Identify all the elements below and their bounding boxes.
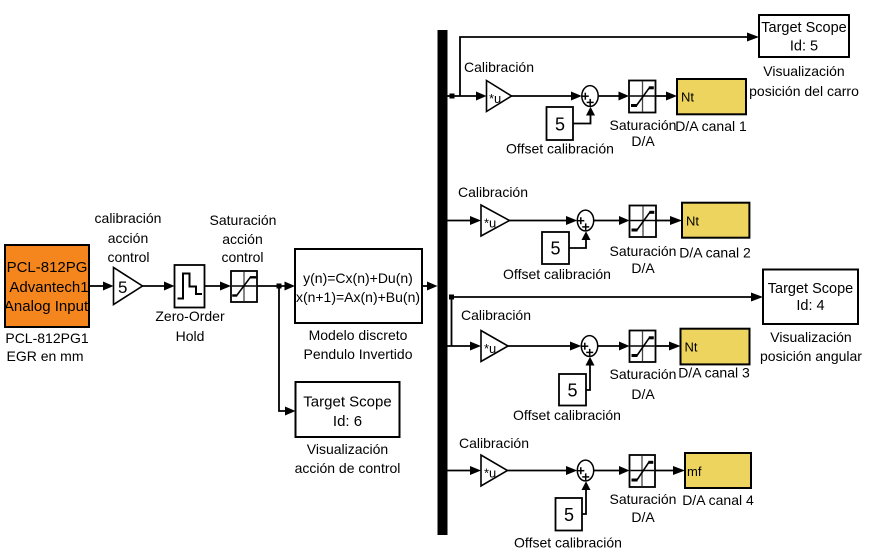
svg-text:5: 5 xyxy=(555,115,565,135)
demux bar xyxy=(438,30,448,535)
svg-text:Offset calibración: Offset calibración xyxy=(514,535,622,551)
svg-text:posición angular: posición angular xyxy=(760,348,862,364)
wire gain row2 to sum row2 xyxy=(510,216,578,225)
wire PCL-812PG1 to gain 5 xyxy=(89,282,114,291)
wire sum row4 to Saturación D/A row4 xyxy=(594,466,630,475)
svg-text:control: control xyxy=(107,249,149,265)
block D/A canal 1 (Nt) xyxy=(677,79,746,114)
svg-text:D/A canal 4: D/A canal 4 xyxy=(682,492,754,508)
svg-text:Visualización: Visualización xyxy=(763,63,844,79)
label Calibración row1 xyxy=(464,59,534,75)
svg-text:Id: 5: Id: 5 xyxy=(790,39,818,55)
label Saturación D/A row3 xyxy=(610,366,677,402)
block D/A canal 3 (Nt) xyxy=(681,329,750,365)
svg-text:Target Scope: Target Scope xyxy=(303,394,391,411)
svg-text:D/A canal 1: D/A canal 1 xyxy=(675,118,747,134)
wire gain 5 to Zero-Order Hold xyxy=(143,282,175,291)
wire Saturación D/A row4 to D/A canal 4 xyxy=(655,466,685,475)
label Modelo discreto Pendulo Invertido xyxy=(304,327,413,362)
svg-text:EGR en mm: EGR en mm xyxy=(6,348,83,364)
label Saturación acción control xyxy=(210,212,277,265)
block D/A canal 4 (mf) xyxy=(685,453,751,488)
block PCL-812PG1 (PCL-812PG Advantech1 Analog Input) xyxy=(4,245,89,327)
svg-text:Saturación: Saturación xyxy=(610,117,677,133)
svg-text:5: 5 xyxy=(564,505,574,525)
constant 5 Offset calibración row1 xyxy=(547,107,574,140)
svg-text:*u: *u xyxy=(484,466,496,481)
label Offset calibración row2 xyxy=(503,266,611,282)
block Modelo discreto (state space) xyxy=(295,249,422,323)
svg-text:Advantech1: Advantech1 xyxy=(9,279,88,296)
label D/A canal 4 xyxy=(682,492,754,508)
svg-text:x(n+1)=Ax(n)+Bu(n): x(n+1)=Ax(n)+Bu(n) xyxy=(296,289,420,305)
wire Saturación acción control to Modelo discreto xyxy=(257,282,295,291)
svg-text:control: control xyxy=(221,249,263,265)
label calibración acción control xyxy=(95,210,162,265)
wire constant 5 row2 to sum row2 xyxy=(569,231,591,248)
sum row3 xyxy=(581,336,597,357)
label Visualización posición del carro xyxy=(749,63,859,99)
label Saturación D/A row1 xyxy=(610,117,677,149)
gain Calibración row2 (*u) xyxy=(481,205,510,236)
svg-text:Nt: Nt xyxy=(685,340,698,355)
node junction saturation output xyxy=(277,284,282,289)
wire Saturación D/A row1 to D/A canal 1 xyxy=(656,92,678,101)
label Zero-Order Hold xyxy=(155,308,225,344)
label D/A canal 2 xyxy=(679,245,751,261)
svg-text:acción: acción xyxy=(222,231,262,247)
gain 5 (calibración acción control) xyxy=(114,268,143,305)
label D/A canal 1 xyxy=(675,118,747,134)
svg-text:Target Scope: Target Scope xyxy=(761,20,846,36)
svg-text:Zero-Order: Zero-Order xyxy=(155,308,225,324)
label PCL-812PG1 EGR en mm xyxy=(5,330,88,364)
wire constant 5 row1 to sum row1 xyxy=(573,107,595,124)
block Saturación D/A row2 xyxy=(630,206,657,238)
svg-text:Pendulo Invertido: Pendulo Invertido xyxy=(304,346,413,362)
svg-text:Id: 6: Id: 6 xyxy=(333,413,362,430)
wire Zero-Order Hold to Saturación acción control xyxy=(205,282,232,291)
wire constant 5 row3 to sum row3 xyxy=(586,357,595,390)
svg-text:5: 5 xyxy=(550,239,560,259)
svg-text:5: 5 xyxy=(118,278,127,297)
wire demux bar to gain Calibración row1 xyxy=(448,92,487,101)
wire branch junction down to Target Scope 6 xyxy=(279,286,296,416)
wire Saturación D/A row3 to D/A canal 3 xyxy=(656,342,681,351)
svg-text:*u: *u xyxy=(489,91,501,106)
svg-text:Id: 4: Id: 4 xyxy=(796,298,824,314)
wire sum row1 to Saturación D/A row1 xyxy=(598,92,629,101)
label Calibración row4 xyxy=(459,435,529,451)
svg-text:Calibración: Calibración xyxy=(461,307,531,323)
svg-text:Calibración: Calibración xyxy=(464,59,534,75)
gain Calibración row1 (*u) xyxy=(487,81,512,112)
label Offset calibración row4 xyxy=(514,535,622,551)
svg-text:calibración: calibración xyxy=(95,210,162,226)
svg-text:Saturación: Saturación xyxy=(610,491,677,507)
svg-text:D/A: D/A xyxy=(631,133,655,149)
svg-text:y(n)=Cx(n)+Du(n): y(n)=Cx(n)+Du(n) xyxy=(303,270,413,286)
svg-text:acción de control: acción de control xyxy=(295,460,401,476)
block Target Scope Id: 6 xyxy=(296,382,400,437)
svg-text:Calibración: Calibración xyxy=(458,184,528,200)
label Visualización acción de control xyxy=(295,441,401,476)
svg-text:Analog Input: Analog Input xyxy=(4,298,89,315)
wire demux bar to gain Calibración row4 xyxy=(448,466,482,475)
label Calibración row3 xyxy=(461,307,531,323)
sum row1 xyxy=(582,86,598,107)
svg-text:D/A canal 2: D/A canal 2 xyxy=(679,245,751,261)
svg-text:5: 5 xyxy=(567,381,577,401)
svg-text:D/A: D/A xyxy=(631,260,655,276)
wire constant 5 row4 to sum row4 xyxy=(582,481,591,514)
svg-text:Saturación: Saturación xyxy=(610,366,677,382)
wire branch row3 up to Target Scope 4 xyxy=(452,293,764,347)
svg-text:*u: *u xyxy=(484,341,496,356)
block Target Scope Id: 4 xyxy=(763,270,858,325)
block Saturación D/A row1 xyxy=(629,81,656,113)
constant 5 Offset calibración row3 xyxy=(559,374,586,406)
node junction row1 xyxy=(450,94,455,99)
svg-text:Offset calibración: Offset calibración xyxy=(503,266,611,282)
svg-text:Saturación: Saturación xyxy=(210,212,277,228)
svg-text:Visualización: Visualización xyxy=(307,441,388,457)
constant 5 Offset calibración row2 xyxy=(542,232,569,264)
svg-text:PCL-812PG1: PCL-812PG1 xyxy=(5,330,88,346)
block Saturación D/A row3 xyxy=(630,331,656,363)
svg-text:Target Scope: Target Scope xyxy=(768,281,853,297)
svg-text:D/A: D/A xyxy=(631,386,655,402)
label Offset calibración row3 xyxy=(513,407,621,423)
svg-text:PCL-812PG: PCL-812PG xyxy=(7,259,88,276)
svg-text:D/A canal 3: D/A canal 3 xyxy=(678,365,750,381)
block Zero-Order Hold xyxy=(175,265,205,308)
node junction row3 xyxy=(449,295,454,300)
gain Calibración row3 (*u) xyxy=(481,331,508,362)
wire demux bar to gain Calibración row3 xyxy=(448,342,482,351)
wire Saturación D/A row2 to D/A canal 2 xyxy=(656,216,682,225)
svg-text:Saturación: Saturación xyxy=(610,243,677,259)
wire gain row1 to sum row1 xyxy=(512,92,582,101)
block Target Scope Id: 5 xyxy=(759,15,849,57)
svg-text:*u: *u xyxy=(484,216,496,231)
svg-text:acción: acción xyxy=(108,230,148,246)
wire branch row1 up to Target Scope 5 xyxy=(460,33,759,97)
label Saturación D/A row2 xyxy=(610,243,677,276)
sum row4 xyxy=(577,460,593,481)
wire Modelo discreto to demux bar xyxy=(422,282,438,291)
label Saturación D/A row4 xyxy=(610,491,677,525)
gain Calibración row4 (*u) xyxy=(481,455,508,486)
svg-text:D/A: D/A xyxy=(631,509,655,525)
svg-text:Visualización: Visualización xyxy=(770,329,851,345)
svg-text:posición del carro: posición del carro xyxy=(749,83,859,99)
svg-text:Modelo discreto: Modelo discreto xyxy=(309,327,408,343)
label Calibración row2 xyxy=(458,184,528,200)
svg-text:Hold: Hold xyxy=(176,328,205,344)
svg-text:Nt: Nt xyxy=(681,90,694,105)
constant 5 Offset calibración row4 xyxy=(556,498,583,531)
sum row2 xyxy=(577,210,593,231)
block Saturación acción control xyxy=(231,271,257,302)
label Offset calibración row1 xyxy=(506,141,614,157)
wire sum row2 to Saturación D/A row2 xyxy=(594,216,630,225)
wire demux bar to gain Calibración row2 xyxy=(448,216,482,225)
svg-text:Calibración: Calibración xyxy=(459,435,529,451)
svg-text:Offset calibración: Offset calibración xyxy=(506,141,614,157)
svg-text:Nt: Nt xyxy=(686,214,699,229)
wire gain row4 to sum row4 xyxy=(508,466,578,475)
wire sum row3 to Saturación D/A row3 xyxy=(598,342,630,351)
block D/A canal 2 (Nt) xyxy=(682,203,749,238)
wire gain row3 to sum row3 xyxy=(508,342,581,351)
block Saturación D/A row4 xyxy=(630,455,656,487)
label Visualización posición angular xyxy=(760,329,862,364)
svg-text:mf: mf xyxy=(687,464,702,479)
svg-text:Offset calibración: Offset calibración xyxy=(513,407,621,423)
label D/A canal 3 xyxy=(678,365,750,381)
